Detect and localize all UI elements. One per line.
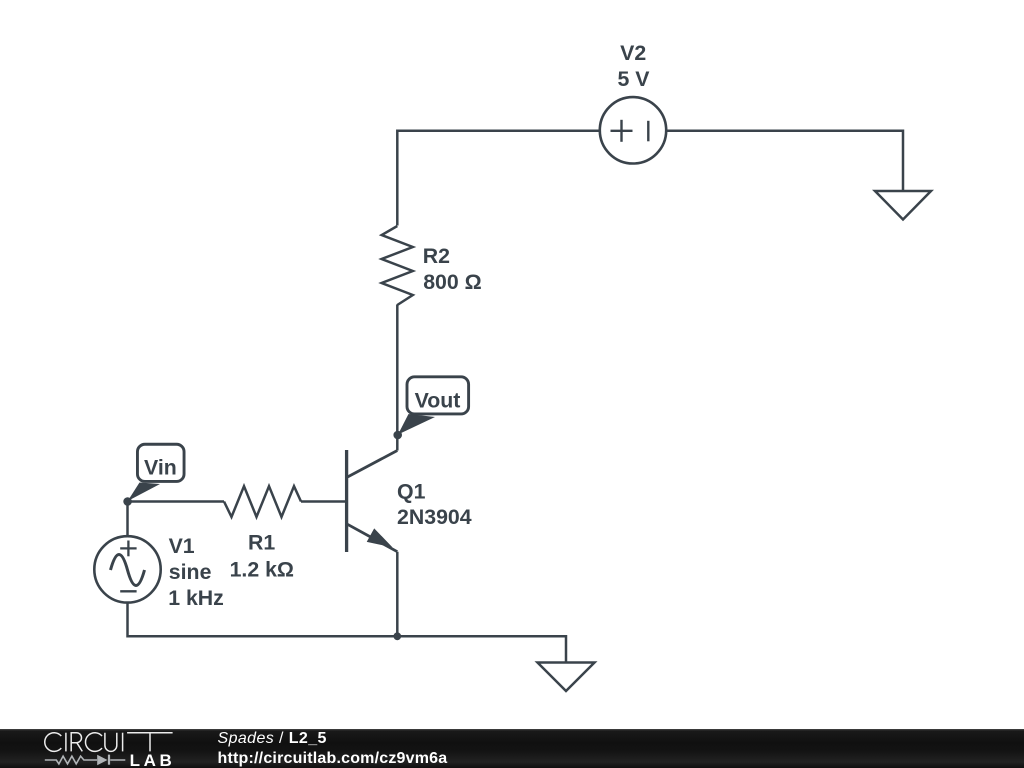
svg-text:5 V: 5 V bbox=[618, 67, 651, 91]
svg-text:Q1: Q1 bbox=[397, 479, 426, 503]
svg-text:sine: sine bbox=[169, 560, 212, 584]
svg-text:V1: V1 bbox=[169, 534, 195, 558]
svg-text:R2: R2 bbox=[423, 244, 450, 268]
svg-text:2N3904: 2N3904 bbox=[397, 505, 472, 529]
svg-text:Vin: Vin bbox=[144, 456, 177, 480]
svg-text:800 Ω: 800 Ω bbox=[423, 270, 482, 294]
svg-text:1.2 kΩ: 1.2 kΩ bbox=[230, 557, 294, 581]
svg-text:1 kHz: 1 kHz bbox=[168, 586, 224, 610]
svg-text:LAB: LAB bbox=[130, 751, 176, 768]
svg-text:V2: V2 bbox=[620, 41, 646, 65]
svg-text:R1: R1 bbox=[248, 531, 275, 555]
svg-text:Vout: Vout bbox=[415, 388, 461, 412]
